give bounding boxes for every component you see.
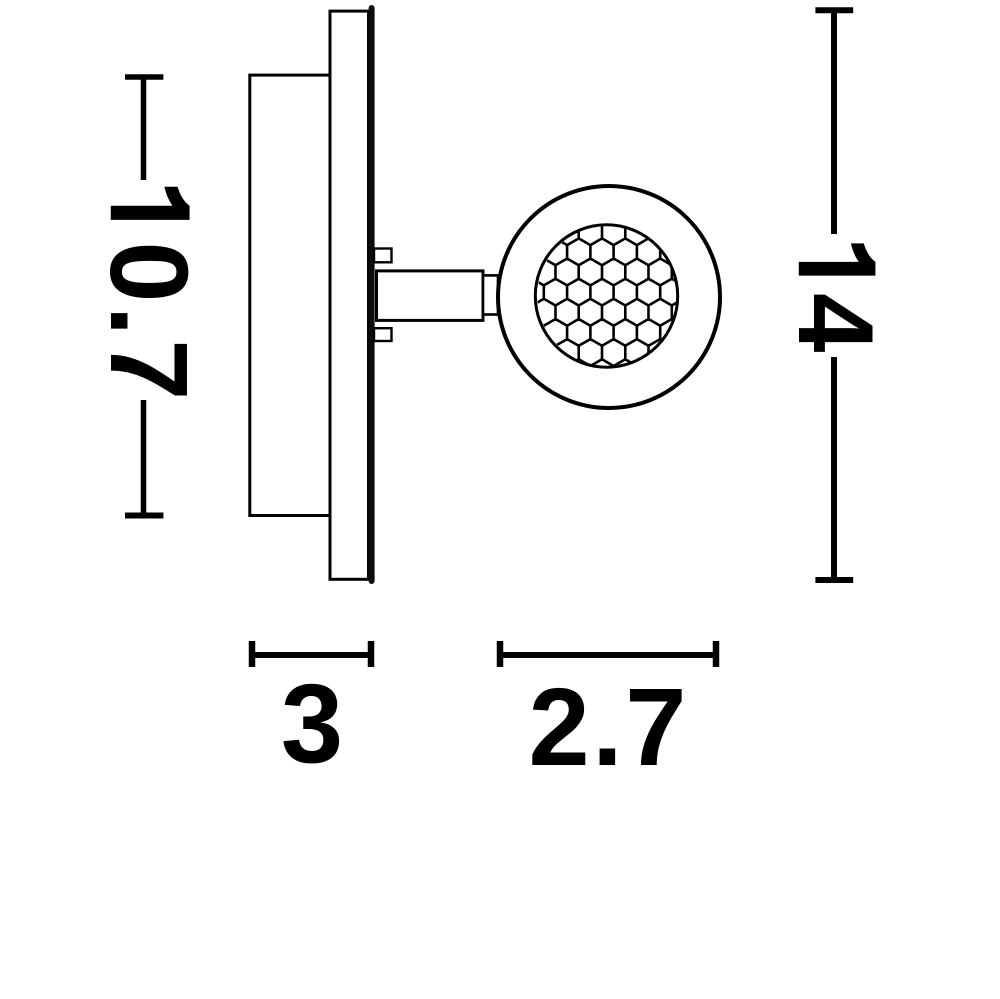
svg-text:3: 3 (281, 661, 343, 786)
svg-text:0.7: 0.7 (87, 241, 210, 403)
svg-text:2.7: 2.7 (528, 666, 688, 789)
svg-text:4: 4 (776, 293, 896, 353)
